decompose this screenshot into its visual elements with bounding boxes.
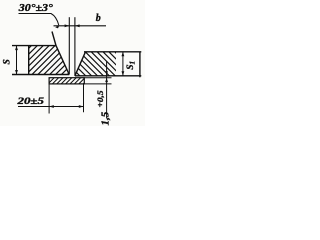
svg-text:S1: S1 [126,61,137,70]
arrowhead of angle leader [55,25,59,28]
svg-text:30°±3°: 30°±3° [18,3,53,14]
svg-text:1,5: 1,5 [100,111,112,125]
arrowhead 20 left [49,105,54,108]
dimension S line [16,46,18,75]
dimension 1.5 extension top [85,77,112,79]
dimension S1 line [122,52,124,76]
gap b extension line left [68,17,70,74]
arrowhead S1 top [122,52,125,57]
dimension 1.5 extension bottom [85,83,112,85]
dimension line 20 [18,106,84,108]
hatching left plate [2,45,97,75]
bevel edge left plate [52,32,69,75]
gap b extension line right [74,17,76,76]
svg-text:+0,5: +0,5 [96,91,105,108]
arrowhead b left [65,24,70,27]
arrowhead S bottom [15,70,18,75]
bevel edge right plate [75,52,86,76]
dimension line b [54,25,107,27]
angle leader 30deg [19,14,59,26]
hatching right plate [55,51,139,76]
svg-text:20±5: 20±5 [16,97,44,107]
dimension line 1.5 vertical [106,62,108,119]
dimension 20 extension right [83,84,85,112]
arrowhead 1.5 down [105,71,108,75]
hatching backing strip [43,77,90,85]
dimension 20 extension left [48,84,50,114]
arrowhead b right [75,24,80,27]
svg-text:S: S [3,59,13,64]
left plate [12,32,69,75]
backing strip [49,78,84,84]
svg-text:b: b [96,13,101,24]
arrowhead 20 right [79,105,84,108]
right plate [75,52,141,77]
arrowhead S1 bottom [122,71,125,76]
arrowhead 1.5 up [105,78,108,82]
arrowhead S top [15,46,18,51]
